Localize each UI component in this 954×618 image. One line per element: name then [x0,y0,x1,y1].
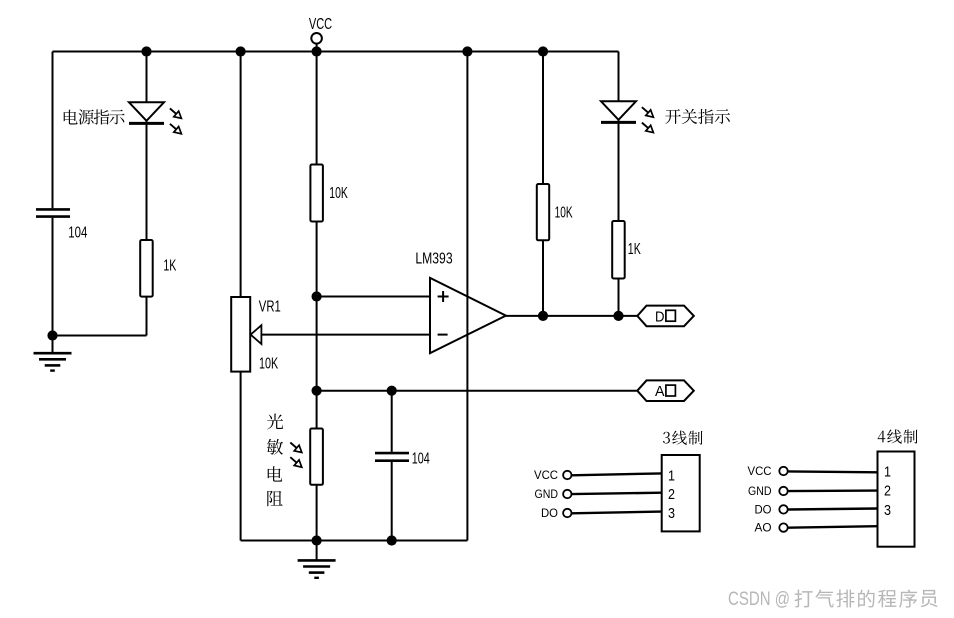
wire LED2 to R4 [618,120,620,221]
label 3线制 [663,432,670,444]
VR1 wiper arrow [251,325,262,344]
svg-text:1K: 1K [163,258,176,275]
wire AO net [317,390,638,392]
wire bottom to ground [316,541,318,560]
wire ground link to R2 [53,335,147,337]
terminal J1 GND [563,490,571,498]
label 开关指示 [665,109,680,124]
junction rail/VCC [312,46,322,56]
wire op-amp vertical branch [466,52,468,541]
resistor R2 1K [140,240,153,297]
svg-text:2: 2 [884,484,891,500]
wire VR1 wiper to inverting input [261,334,430,336]
LDR light arrow 2 [288,454,304,470]
svg-text:VCC: VCC [748,466,772,478]
wire J1 GND [572,493,662,494]
wire LDR to bottom rail [316,485,318,541]
junction rail/op-amp branch [462,46,472,56]
capacitor C1 104 plates [36,209,70,216]
svg-text:104: 104 [68,224,87,241]
resistor R1 10K [310,165,323,222]
svg-text:10K: 10K [329,185,348,202]
op-amp minus input mark [438,334,448,336]
LED D2 light arrow 1 [639,104,655,120]
connector J1 3-wire body [662,455,700,531]
wire VR1 to bottom rail [240,372,242,541]
junction output/R3 [538,311,548,321]
svg-text:10K: 10K [555,204,573,221]
op-amp plus input mark [438,291,449,302]
resistor R3 10K [537,184,549,240]
VCC terminal circle [311,33,322,44]
wire J2 AO [788,526,878,528]
terminal J2 GND [779,487,787,495]
wire left branch lower [52,218,54,353]
wire AO to C2 [391,391,393,452]
wire to non-inverting input [317,296,430,298]
svg-text:AO: AO [755,523,772,535]
svg-text:3: 3 [884,503,891,519]
svg-text:A: A [655,383,665,400]
junction bottom/C2 [387,535,397,545]
potentiometer VR1 body [231,297,250,372]
svg-text:D: D [655,308,665,325]
junction ground node [47,330,57,340]
svg-text:3: 3 [668,506,675,522]
terminal J1 DO [563,509,571,517]
LDR light arrow 1 [288,440,304,456]
svg-text:VCC: VCC [534,470,558,482]
photoresistor LDR body [310,429,323,485]
wire R2 to ground link [146,297,148,336]
wire VCC to R1 [316,52,318,165]
wire rail to LED1 [146,52,148,103]
terminal J2 DO [779,505,787,513]
wire LED1 to R2 [146,121,148,240]
label 电源指示 [64,110,78,125]
wire left branch upper [52,52,54,209]
junction rail/VR1 [236,46,246,56]
wire rail to R3 [542,52,544,185]
DO output flag [637,306,694,327]
AO output flag [637,380,694,401]
LED D2 switch indicator [601,101,636,120]
junction output/R4 [613,311,623,321]
junction rail/R3 [538,46,548,56]
LED D1 light arrow 2 [167,121,183,137]
svg-text:GND: GND [535,489,559,501]
wire J1 DO [572,512,662,514]
wire J2 VCC [788,470,878,473]
svg-text:LM393: LM393 [415,251,452,268]
wire R1 to photoresistor [316,222,318,429]
svg-text:10K: 10K [259,356,278,373]
ground bottom [298,559,336,562]
junction bottom/LDR [312,535,322,545]
wire J2 GND [788,489,878,492]
svg-text:VCC: VCC [309,16,332,33]
op-amp U1 LM393 triangle [430,278,506,353]
svg-text:1K: 1K [628,241,641,258]
terminal J1 VCC [563,471,571,479]
junction AO/C2 [387,386,397,396]
wire rail corner to LED2 [618,52,620,102]
wire top VCC rail [53,51,619,53]
ground left [34,352,72,355]
svg-text:DO: DO [541,508,558,520]
LED D1 power indicator [129,102,164,121]
wire C2 to bottom rail [391,462,393,541]
wire VCC terminal to rail [316,43,318,51]
LED D1 light arrow 1 [167,106,183,122]
svg-text:GND: GND [748,486,772,498]
resistor R4 1K [612,221,625,279]
wire rail to VR1 [240,52,242,298]
svg-text:104: 104 [412,450,430,467]
label 光敏电阻 [267,414,283,430]
svg-text:1: 1 [884,464,891,480]
svg-text:VR1: VR1 [259,299,281,316]
terminal J2 AO [779,523,787,531]
wire J2 DO [788,509,878,510]
junction non-inverting node [312,291,322,301]
wire bottom rail [241,540,468,542]
svg-text:2: 2 [668,487,675,503]
connector J2 4-wire body [878,452,915,547]
LED D2 light arrow 2 [639,120,655,136]
junction AO node [312,386,322,396]
wire R4 to output [618,279,620,316]
capacitor C2 104 plates [375,453,409,461]
terminal J2 VCC [779,467,787,475]
svg-text:CSDN @: CSDN @ [728,589,790,610]
svg-text:DO: DO [755,505,772,517]
wire output net [506,315,638,317]
label 4线制 [878,431,886,443]
wire J1 VCC [572,473,662,475]
svg-text:1: 1 [668,468,675,484]
junction rail/LED1 [141,46,151,56]
wire R3 to output [542,240,544,316]
